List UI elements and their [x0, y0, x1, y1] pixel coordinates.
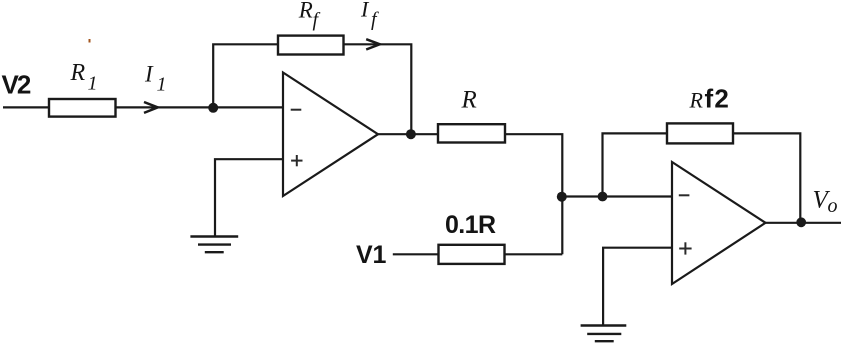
current arrow I1	[144, 102, 158, 113]
label Vo	[813, 186, 838, 217]
wire: U1 non-inverting input to ground	[215, 159, 283, 236]
label Rf	[298, 0, 321, 31]
wire: V1 input through 0.1R	[393, 253, 563, 255]
current arrow If	[366, 39, 380, 49]
op-amp U2	[672, 162, 766, 284]
node B: U1 output junction	[406, 129, 416, 139]
label If	[360, 0, 379, 31]
svg-text:V2: V2	[2, 70, 31, 100]
svg-text:0.1R: 0.1R	[445, 211, 496, 239]
wire: summing node to U2 inverting input	[562, 195, 672, 197]
wire: feedback loop of U1	[213, 44, 411, 134]
resistor 0.1R	[439, 245, 505, 264]
node D: U2 inverting input junction	[598, 192, 608, 202]
op-amp U1	[283, 73, 378, 197]
wire: U1 output through R down to summing node	[378, 134, 562, 254]
resistor Rf2	[667, 123, 733, 143]
svg-text:I: I	[360, 0, 370, 21]
wire: U2 non-inverting input to ground	[603, 248, 672, 326]
resistor Rf	[278, 36, 344, 55]
label Rf2	[689, 83, 731, 113]
ground (U1 + input)	[190, 237, 238, 253]
svg-text:f: f	[371, 9, 379, 31]
svg-text:I: I	[144, 61, 154, 86]
svg-text:R: R	[298, 0, 313, 23]
svg-text:V1: V1	[356, 241, 386, 269]
ground (U2 + input)	[581, 326, 627, 342]
wire: U2 output Vo	[766, 222, 842, 224]
label R1	[70, 60, 98, 95]
wire: feedback loop of U2	[603, 133, 801, 222]
node A: U1 inverting input junction	[208, 103, 218, 113]
svg-text:f2: f2	[705, 83, 731, 113]
svg-text:R: R	[689, 87, 704, 112]
node C: summing junction	[557, 192, 567, 202]
resistor R	[438, 124, 505, 142]
resistor R1	[49, 99, 116, 117]
label I1	[144, 61, 167, 95]
node E: U2 output junction	[796, 217, 806, 227]
svg-text:f: f	[313, 9, 321, 31]
wire: V2 input through R1 to U1 inverting input	[3, 106, 283, 108]
svg-text:R: R	[461, 86, 477, 113]
svg-text:1: 1	[157, 73, 167, 95]
svg-text:o: o	[828, 195, 838, 217]
svg-text:1: 1	[88, 73, 98, 95]
svg-text:R: R	[70, 60, 86, 86]
